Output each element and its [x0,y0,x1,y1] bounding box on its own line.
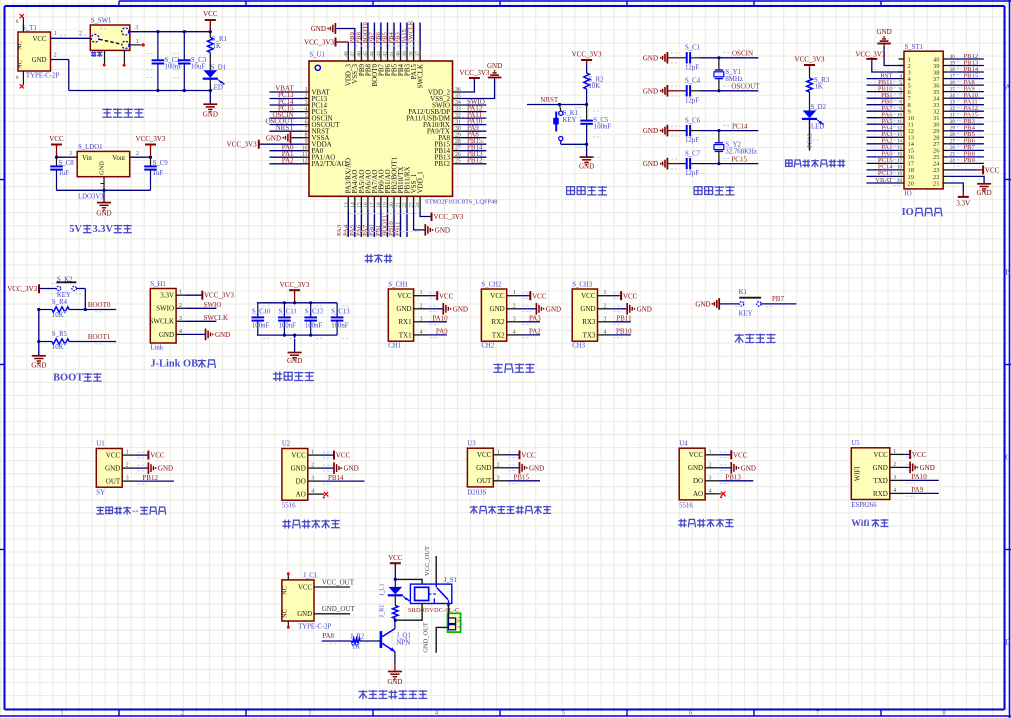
svg-text:U4: U4 [679,440,688,447]
svg-text:5516: 5516 [282,503,296,510]
U1 top net labels PB9..SWCLK [349,20,422,49]
svg-text:IO: IO [905,190,912,197]
net label PA10 at U5 [905,473,939,481]
svg-text:U1: U1 [96,441,104,448]
svg-text:1K: 1K [815,83,823,90]
svg-text:GND: GND [688,464,703,472]
net label PA9 at U5 [905,486,939,494]
ground GND power circuit [203,91,218,119]
svg-text:21: 21 [396,202,402,208]
svg-text:GND: GND [637,305,652,313]
svg-text:1: 1 [311,450,314,456]
selection dash marks extra [51,29,821,644]
svg-text:Wifi: Wifi [851,518,869,529]
svg-text:28: 28 [950,133,956,138]
ground GND at U3 pin2 [507,462,544,474]
ground GND at U1 pin2 [136,462,173,474]
svg-text:20: 20 [908,180,915,187]
svg-text:TXD: TXD [873,477,887,485]
ground GND at U1 VSS_1 pin23 [414,209,450,235]
svg-text:26: 26 [950,146,956,151]
svg-text:10: 10 [302,146,308,152]
svg-text:12: 12 [302,159,308,165]
net label PB11 [612,314,632,322]
ground GND filter [287,335,302,365]
title BOOT电路 [53,373,102,384]
svg-text:16: 16 [897,153,903,158]
svg-text:37: 37 [415,51,421,57]
svg-text:14: 14 [897,140,903,145]
svg-text:2: 2 [136,151,139,157]
svg-text:100nF: 100nF [252,323,270,330]
svg-text:OUT: OUT [106,478,121,486]
svg-text:GND: GND [99,161,106,175]
wire filter top bus [257,301,337,304]
title 5V转3.3V电路 [69,224,132,235]
pin header S_ST1 IO body [904,44,943,198]
svg-text:1: 1 [709,449,712,455]
svg-text:AO: AO [693,490,703,498]
svg-text:BOOT: BOOT [53,373,83,384]
svg-text:30: 30 [950,120,956,125]
U1 bottom pin stubs 13-24 [343,196,421,209]
svg-text:VCC_3V3: VCC_3V3 [227,141,257,149]
wire relay contact to J_T1 [448,604,450,619]
ground GND at U5 pin2 [905,462,935,474]
S_ST1 left net labels [867,72,903,185]
svg-text:12pF: 12pF [685,137,699,144]
svg-text:1: 1 [604,290,607,296]
LDO regulator S_LDO1 LDO3V3 [77,144,130,200]
svg-text:17: 17 [897,159,903,164]
svg-text:GND: GND [203,111,218,119]
svg-text:3: 3 [420,316,423,322]
svg-text:NC: NC [281,586,288,595]
svg-text:GND: GND [96,210,111,218]
svg-text:NRST: NRST [276,124,295,132]
svg-text:S_C10: S_C10 [252,309,271,316]
power VCC at S_ST1 pin23 [949,165,1000,174]
power VCC [203,10,218,32]
svg-text:GND: GND [741,464,756,472]
svg-text:VCC_OUT: VCC_OUT [322,578,355,586]
svg-text:GND: GND [873,464,888,472]
svg-text:21: 21 [933,180,940,187]
svg-text:38: 38 [950,68,956,73]
svg-text:3: 3 [604,316,607,322]
svg-text:S_C9: S_C9 [153,160,169,167]
svg-text:PB12: PB12 [467,157,483,165]
connector S_H1 J-Link body [150,281,185,351]
U1 right pin stubs 36-25 [453,87,461,165]
svg-text:SWCLK: SWCLK [417,64,425,89]
svg-text:PC14: PC14 [732,122,748,130]
svg-text:TX3: TX3 [583,331,596,339]
svg-text:5516: 5516 [679,502,693,509]
svg-text:KEY: KEY [739,310,753,317]
terminal J_T1 [448,613,464,632]
svg-text:15: 15 [356,202,362,208]
svg-text:PC13: PC13 [807,133,814,148]
svg-text:J_S1: J_S1 [444,577,457,584]
svg-text:1: 1 [305,87,308,93]
ground GND LDO [96,190,111,217]
net label PB13 at U4 [719,474,754,482]
svg-text:1: 1 [420,290,423,296]
svg-text:3: 3 [709,475,712,481]
svg-text:PA9: PA9 [911,486,923,494]
capacitor S_C13 100nF [331,303,351,335]
svg-text:VCC: VCC [150,452,165,460]
svg-text:2: 2 [126,463,129,469]
svg-text:Vout: Vout [112,155,125,162]
svg-text:40: 40 [396,51,402,57]
svg-text:B: B [1005,268,1010,277]
power VCC_3V3 at U1 VDD_3 pin48 [304,38,348,50]
svg-text:K1: K1 [739,289,747,296]
power VCC_3V3 reset [572,51,602,65]
svg-text:GND_OUT: GND_OUT [422,622,429,653]
svg-text:J_R2: J_R2 [350,633,365,640]
svg-text:NRST: NRST [540,96,559,104]
ground GND reset [579,144,594,170]
svg-text:15: 15 [897,146,903,151]
resistor S_R5 10K [37,331,116,351]
wire T1 VCC to SW1 pin2 [51,31,92,38]
svg-text:CH2: CH2 [481,342,494,349]
svg-text:1K: 1K [352,643,360,650]
svg-text:CH3: CH3 [572,342,585,349]
ground GND at S_CH3 pin2 [612,303,652,315]
svg-text:S_C6: S_C6 [685,117,701,124]
title 电源电路 [102,108,143,117]
resistor J_R1 [378,595,398,622]
svg-text:AO: AO [296,491,306,499]
svg-text:36: 36 [950,81,956,86]
svg-text:LDO3V3: LDO3V3 [78,193,104,200]
svg-text:GND: GND [387,678,402,686]
capacitor S_C4 12pF + ground [643,78,759,105]
svg-text:24: 24 [415,202,421,208]
svg-text:PB15: PB15 [514,474,530,482]
svg-text:S_U1: S_U1 [309,52,325,59]
svg-text:S_R1: S_R1 [212,36,227,43]
svg-text:NPN: NPN [397,640,411,647]
svg-text:GND_OUT: GND_OUT [322,605,356,613]
power VCC at S_CH2 pin1 [521,291,547,300]
capacitor S_C10 100nF [252,303,272,335]
svg-text:3: 3 [135,25,138,31]
svg-text:VCC_3V3: VCC_3V3 [204,292,234,300]
svg-text:5: 5 [305,113,308,119]
svg-text:TYPE-C-2P: TYPE-C-2P [298,623,331,630]
svg-text:NC: NC [281,609,288,618]
resistor S_R1 1K [208,32,227,71]
svg-text:OSCOUT: OSCOUT [731,83,760,91]
svg-text:S_H1: S_H1 [150,281,166,288]
selection marks [0,0,1,1]
svg-text:VCC: VCC [388,554,403,562]
svg-text:LED: LED [811,124,824,131]
svg-text:S_D1: S_D1 [211,64,227,71]
svg-text:2: 2 [311,463,314,469]
svg-text:PB12: PB12 [142,474,158,482]
svg-text:40: 40 [950,55,956,60]
svg-text:PA8: PA8 [322,632,334,640]
svg-text:12pF: 12pF [685,64,699,71]
capacitor S_C3 10uF [178,30,207,92]
svg-text:PB7: PB7 [772,295,785,303]
svg-text:4: 4 [305,106,308,112]
svg-text:VCC: VCC [336,452,351,460]
svg-text:27: 27 [950,140,956,145]
module U1 SY body [96,441,146,497]
svg-text:PA2/TX/AO: PA2/TX/AO [312,160,347,168]
title 光照检测模块 U2 [282,520,340,529]
svg-text:2: 2 [54,52,57,58]
svg-text:3: 3 [179,316,182,322]
svg-text:48: 48 [343,51,349,57]
svg-text:6: 6 [305,119,308,125]
title Wifi模块 [851,518,888,529]
svg-text:VCC_3V3: VCC_3V3 [572,51,602,59]
svg-text:NC: NC [17,60,24,69]
svg-text:43: 43 [376,51,382,57]
title 人体热释电感应模块 [470,506,551,514]
title 光照检测模块 U4 [678,519,733,528]
svg-text:VCC: VCC [397,292,412,300]
ground GND at U1 VSS_3 pin47 [311,23,355,49]
svg-text:STM32F103C8T6_LQFP48: STM32F103C8T6_LQFP48 [425,199,497,206]
svg-text:1K: 1K [213,43,221,50]
svg-text:VCC: VCC [912,451,927,459]
ground GND at S_H1 pin4 [184,329,230,341]
value SRD-05VDC-SL-C [408,607,459,614]
svg-text:GND: GND [158,465,173,473]
net label PB15 at U3 [507,474,540,482]
power VCC at LDO [49,135,64,157]
svg-text:1: 1 [54,31,57,37]
svg-text:31: 31 [950,114,956,119]
svg-text:BOOT1: BOOT1 [88,333,111,341]
ground GND at U2 pin2 [322,462,359,474]
svg-text:VCC_OUT: VCC_OUT [424,546,431,576]
svg-text:3: 3 [497,475,500,481]
svg-text:0: 0 [16,75,19,81]
wire filter bottom bus [257,334,337,337]
svg-text:37: 37 [950,74,956,79]
capacitor S_C1 12pF + ground [643,45,759,72]
junction LED-GND node [209,89,212,92]
capacitor S_C8 1uF [50,157,74,190]
svg-text:S_K1: S_K1 [563,110,579,117]
title 程序运行指示灯 [786,159,846,167]
svg-text:S_C1: S_C1 [685,45,700,52]
svg-text:VCC: VCC [521,451,536,459]
svg-text:RX1: RX1 [398,318,412,326]
power VCC at U5 pin1 [905,450,927,459]
net label PA2 [521,327,541,335]
U1 top pin stubs 48-37 [343,49,421,61]
svg-text:11: 11 [897,120,902,125]
junction VCC node [209,30,212,33]
crystal S_Y2 32.768KHz [714,129,757,165]
capacitor S_C6 12pF + ground [643,117,759,144]
power VCC_3V3 at U1 VDDA pin9 [227,140,303,149]
resistor J_R2 1K [322,632,381,650]
svg-text:J_Q1: J_Q1 [397,633,411,640]
ground GND relay [387,664,402,686]
svg-text:VCC: VCC [49,135,64,143]
svg-text:C: C [1005,453,1010,462]
svg-text:VBAT: VBAT [875,177,892,184]
svg-text:3: 3 [126,476,129,482]
power VCC at U4 pin1 [719,450,748,459]
svg-text:12pF: 12pF [685,97,699,104]
svg-text:45: 45 [363,51,369,57]
svg-text:25: 25 [950,153,956,158]
svg-text:2: 2 [893,462,896,468]
connector S_T1 TYPE-C-2P [16,14,60,88]
svg-text:13: 13 [897,133,903,138]
svg-text:4: 4 [604,329,607,335]
svg-text:U2: U2 [282,441,291,448]
svg-text:--: -- [132,506,138,517]
svg-text:GND: GND [877,28,892,36]
svg-text:34: 34 [950,94,956,99]
svg-text:8: 8 [305,133,308,139]
wire LDO GND rail [57,177,151,192]
title 声音检测--数字量 [96,506,165,517]
svg-text:CH1: CH1 [388,342,401,349]
svg-text:2: 2 [79,31,82,37]
power VCC_3V3 at U1 VDD_1 pin24 [420,209,464,221]
svg-text:S_T1: S_T1 [22,25,37,32]
svg-text:D203S: D203S [467,489,486,496]
svg-text:S_C12: S_C12 [305,309,324,316]
pushbutton S_K1 KEY [554,105,587,145]
no-connect at U4 pin4 [719,492,726,499]
wire SW1 pin3 to VCC node [130,25,211,45]
svg-text:VCC: VCC [532,292,547,300]
svg-text:BOOT0: BOOT0 [88,301,111,309]
svg-text:U5: U5 [851,440,860,447]
connector S_CH3 CH3 body [572,282,622,350]
svg-text:GND: GND [643,54,658,62]
svg-text:VCC: VCC [298,585,312,592]
svg-text:1uF: 1uF [153,170,164,177]
svg-text:PB14: PB14 [328,474,344,482]
net label VCC_OUT vertical [424,546,436,584]
svg-text:1: 1 [893,449,896,455]
pushbutton S_K2 KEY [56,276,76,299]
svg-text:4: 4 [513,329,516,335]
svg-text:5: 5 [562,710,565,717]
svg-text:S_Y2: S_Y2 [725,142,741,149]
power VCC at S_CH1 pin1 [428,291,454,300]
svg-text:D: D [1005,638,1011,647]
svg-text:J_T1: J_T1 [456,616,463,629]
svg-text:J_L1: J_L1 [378,583,385,596]
svg-text:S_SW1: S_SW1 [91,18,112,25]
svg-text:OSCIN: OSCIN [732,50,753,58]
svg-text:GND: GND [311,25,326,33]
net label PC14 [732,122,748,130]
label 开关 [91,51,102,57]
S_ST1 right net labels [949,53,984,166]
ground GND at U1 VSSA pin8 [266,132,303,143]
svg-text:GND: GND [453,305,468,313]
power VCC at U2 pin1 [322,451,351,460]
svg-text:PC15: PC15 [731,155,747,163]
power VCC at S_CH3 pin1 [612,291,638,300]
module U4 5516 body [679,440,729,509]
capacitor S_C12 100nF [304,303,324,335]
net label OSCOUT [731,83,760,91]
S_ST1 pin stubs [899,59,949,183]
svg-text:VCC: VCC [623,292,638,300]
net label PB7 [761,295,796,304]
net label GND_OUT at J_C1 [314,605,355,614]
svg-text:S_R4: S_R4 [52,299,68,306]
power 3.3V at S_ST1 pin21 [949,183,971,207]
svg-text:3: 3 [69,151,72,157]
svg-text:38: 38 [409,51,415,57]
svg-text:KEY: KEY [57,292,71,299]
svg-text:5V: 5V [69,224,82,235]
svg-text:GND: GND [579,162,594,170]
svg-text:3.3V: 3.3V [93,224,114,235]
svg-text:PB11: PB11 [616,314,632,322]
svg-text:7: 7 [305,126,308,132]
svg-text:14: 14 [350,202,356,208]
svg-text:Link: Link [150,344,163,351]
svg-text:VCC_3V3: VCC_3V3 [855,50,885,58]
svg-text:VCC: VCC [581,292,596,300]
svg-text:1uF: 1uF [59,170,70,177]
title 按键电路 [734,334,775,344]
svg-text:4: 4 [311,489,314,495]
svg-text:GND: GND [297,611,312,618]
svg-text:2: 2 [179,303,182,309]
svg-text:SWIO: SWIO [204,301,222,309]
svg-text:VCC_3V3: VCC_3V3 [459,69,489,77]
module U5 ESP8266 body [851,440,915,509]
wire LDO Vin [55,151,77,159]
svg-text:10K: 10K [52,312,64,319]
svg-text:2: 2 [181,710,184,717]
net label GND_OUT vertical [422,622,448,653]
capacitor S_C11 100nF [278,303,297,335]
svg-text:PB10: PB10 [616,327,632,335]
svg-text:42: 42 [383,51,389,57]
svg-text:PB9: PB9 [964,157,976,164]
U1 left net labels and wires [265,85,302,165]
svg-text:S_C7: S_C7 [685,150,701,157]
svg-text:VCC_3V3: VCC_3V3 [280,281,310,289]
U1 bottom net labels PA3..PB11 [336,209,419,237]
module U2 5516 body [282,441,332,510]
svg-text:RX3: RX3 [582,318,596,326]
svg-text:TYPE-C-2P: TYPE-C-2P [26,73,59,80]
svg-text:SWCLK: SWCLK [408,20,415,43]
net label PB10 [612,327,632,335]
svg-text:1: 1 [513,290,516,296]
svg-text:PA9: PA9 [436,327,448,335]
svg-text:39: 39 [402,51,408,57]
svg-text:10K: 10K [52,344,64,351]
svg-text:3.3V: 3.3V [956,199,970,207]
